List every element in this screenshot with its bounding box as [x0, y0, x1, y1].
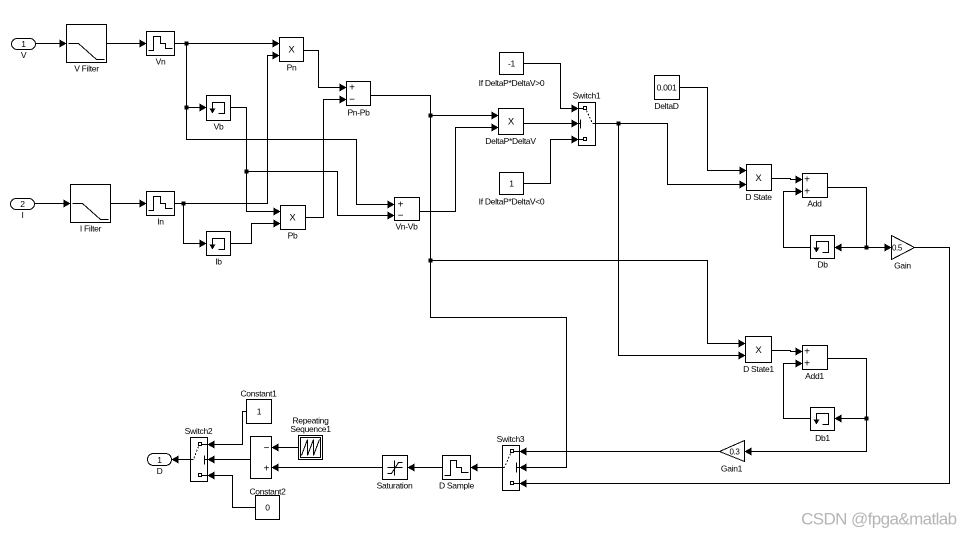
svg-text:I Filter: I Filter	[80, 224, 102, 234]
wire Db to Add input 2	[784, 188, 811, 248]
svg-text:Saturation: Saturation	[377, 481, 413, 491]
svg-text:0: 0	[265, 503, 270, 513]
junction DeltaP node 1	[429, 114, 433, 118]
svg-text:Gain: Gain	[894, 261, 911, 271]
wire Vb to Pb input 1	[231, 108, 281, 216]
wire Gain1 to Switch3 input 1	[520, 448, 720, 456]
svg-text:Add1: Add1	[805, 371, 824, 381]
junction Vn-Vb branch	[185, 106, 189, 110]
svg-text:X: X	[755, 173, 762, 184]
block Vn-Vb sum	[395, 198, 420, 232]
svg-text:Pb: Pb	[288, 231, 298, 241]
svg-text:Switch3: Switch3	[497, 434, 525, 444]
svg-text:1: 1	[509, 179, 514, 189]
block D State1 product	[743, 337, 774, 375]
wire -1 to Switch1 input 1	[524, 64, 579, 113]
svg-text:2: 2	[20, 199, 25, 209]
block Gain 0.5	[892, 236, 915, 271]
block Pn-Pb sum	[347, 82, 371, 118]
wire Repeating Sequence1 to sum minus input	[272, 444, 299, 452]
wire V to V Filter	[36, 40, 67, 48]
wire Constant1 to Switch2 input 1	[208, 412, 247, 449]
block Vn	[147, 32, 175, 67]
svg-text:V Filter: V Filter	[74, 64, 99, 74]
svg-text:Vb: Vb	[214, 122, 224, 132]
wire D Sample to Saturation	[408, 464, 443, 472]
svg-text:+: +	[398, 200, 404, 211]
block Add sum	[803, 174, 828, 209]
junction Switch1 node	[617, 122, 621, 126]
wire D State1 to Add1 input 1	[772, 348, 803, 356]
junction DeltaP node 2	[429, 259, 433, 263]
block Gain1 0.3	[720, 441, 745, 474]
svg-text:0.3: 0.3	[730, 448, 741, 457]
svg-text:Sequence1: Sequence1	[290, 424, 331, 434]
block Ib	[207, 232, 231, 267]
svg-text:Pn: Pn	[287, 63, 297, 73]
wire Switch1 node to D State1 input 2	[619, 124, 746, 360]
block DeltaP*DeltaV product	[485, 109, 536, 147]
input port 2 I	[11, 199, 35, 221]
block Switch1	[573, 91, 601, 146]
input port 1 V	[12, 39, 36, 61]
constant 1	[479, 173, 545, 207]
svg-text:X: X	[289, 213, 296, 224]
svg-text:-1: -1	[508, 59, 516, 69]
wire In node to Ib	[184, 204, 207, 248]
wire Db1 to Add1 input 2	[784, 360, 811, 419]
block Db1 memory	[811, 408, 835, 444]
wire DeltaP node to D State1 input 1	[431, 116, 746, 348]
wire Add1 to Db1 and Gain1	[745, 359, 867, 456]
svg-text:If DeltaP*DeltaV<0: If DeltaP*DeltaV<0	[479, 197, 545, 207]
junction Add output node	[865, 246, 869, 250]
svg-text:+: +	[804, 187, 810, 198]
wire D State to Add input 1	[772, 176, 803, 184]
svg-text:+: +	[349, 83, 355, 94]
svg-text:Pn-Pb: Pn-Pb	[347, 108, 370, 118]
wire Add to Db and Gain	[828, 188, 892, 252]
svg-text:1: 1	[257, 407, 262, 417]
block Saturation	[377, 456, 413, 491]
wire Vn node to Vn-Vb plus input	[187, 108, 395, 209]
wire Switch2 to output port D	[172, 456, 191, 464]
output port 1 D	[148, 454, 172, 477]
svg-text:1: 1	[21, 39, 26, 49]
svg-text:Constant1: Constant1	[240, 389, 277, 399]
svg-text:+: +	[264, 464, 270, 475]
svg-text:DeltaP*DeltaV: DeltaP*DeltaV	[485, 136, 536, 146]
block Db memory	[811, 236, 835, 270]
svg-text:Ib: Ib	[215, 257, 222, 267]
wire DeltaD to D State input 1	[680, 88, 747, 175]
svg-text:Vn-Vb: Vn-Vb	[395, 222, 418, 232]
svg-text:Db1: Db1	[815, 433, 830, 443]
svg-text:CSDN @fpga&matlab: CSDN @fpga&matlab	[801, 510, 957, 529]
svg-text:−: −	[398, 211, 404, 222]
block Pb product	[281, 206, 306, 241]
wire Switch3 to D Sample	[471, 464, 503, 472]
svg-text:0.001: 0.001	[657, 83, 677, 93]
block Repeating Sequence1	[290, 416, 331, 460]
svg-text:Db: Db	[817, 260, 828, 270]
wire I to I Filter	[35, 200, 71, 208]
block Switch3	[497, 434, 525, 491]
junction Add1 output node	[865, 417, 869, 421]
svg-text:0.5: 0.5	[892, 244, 903, 253]
svg-text:Switch1: Switch1	[573, 91, 601, 101]
block sum Switch2 input	[251, 437, 272, 479]
block D State product	[745, 165, 772, 203]
svg-text:D State1: D State1	[743, 364, 774, 374]
block V Filter	[67, 25, 107, 74]
svg-text:Add: Add	[807, 199, 822, 209]
block In	[147, 192, 175, 227]
svg-text:X: X	[288, 45, 295, 56]
svg-text:+: +	[804, 175, 810, 186]
block D Sample	[439, 456, 474, 491]
wire Gain to Switch3 input 3	[520, 248, 950, 488]
wire V Filter to Vn	[107, 40, 147, 48]
block Add1 sum	[803, 346, 828, 382]
wire Vn-Vb to DeltaP*DeltaV input 2	[420, 124, 499, 212]
svg-text:D: D	[157, 466, 163, 476]
wire 1 to Switch1 input 3	[524, 136, 579, 184]
wire Vb node to Vn-Vb minus input	[247, 172, 395, 220]
svg-text:Constant2: Constant2	[249, 487, 286, 497]
svg-text:D State: D State	[745, 192, 772, 202]
svg-text:−: −	[349, 95, 355, 106]
svg-text:X: X	[755, 345, 762, 356]
wire Pn-Pb to DeltaP*DeltaV input 1	[371, 96, 499, 120]
svg-text:D Sample: D Sample	[439, 481, 474, 491]
wire I Filter to In	[111, 200, 147, 208]
constant -1	[479, 53, 545, 89]
svg-text:I: I	[21, 210, 23, 220]
wire Pb to Pn-Pb minus input	[306, 96, 347, 218]
svg-text:Switch2: Switch2	[185, 426, 213, 436]
svg-text:X: X	[508, 117, 515, 128]
wire DeltaP node to Switch3 middle input	[431, 261, 567, 472]
svg-text:In: In	[157, 217, 164, 227]
wire Constant2 to Switch2 input 3	[208, 472, 256, 508]
wire Switch1 to D State input 2	[596, 124, 747, 189]
svg-text:1: 1	[157, 455, 162, 465]
svg-text:Gain1: Gain1	[721, 464, 743, 474]
junction Vn node	[185, 42, 189, 46]
constant Constant2	[249, 487, 286, 520]
svg-text:V: V	[21, 50, 27, 60]
wire Vn to Pn input 1	[175, 40, 280, 48]
wire Ib to Pb input 2	[231, 220, 281, 244]
block Vb	[207, 96, 231, 132]
svg-text:Vn: Vn	[156, 57, 166, 67]
wire Pn to Pn-Pb plus input	[304, 51, 347, 92]
svg-text:−: −	[264, 443, 270, 454]
block Pn product	[280, 38, 304, 73]
block Switch2	[185, 426, 213, 482]
constant Constant1	[240, 389, 277, 424]
svg-text:DeltaD: DeltaD	[654, 101, 678, 111]
constant DeltaD	[654, 76, 679, 112]
svg-text:+: +	[804, 359, 810, 370]
svg-text:If DeltaP*DeltaV>0: If DeltaP*DeltaV>0	[479, 78, 545, 88]
wire sum to Switch2 input 2	[208, 456, 251, 464]
wire Saturation to sum plus input	[272, 464, 383, 472]
svg-text:+: +	[804, 347, 810, 358]
wire DeltaP*DeltaV to Switch1 input 2	[524, 120, 579, 128]
junction Vb node	[245, 170, 249, 174]
wire Vn node to Vb	[187, 44, 207, 112]
block I Filter	[71, 185, 111, 234]
junction In node	[182, 202, 186, 206]
wire In to Pn input 2	[175, 52, 280, 204]
